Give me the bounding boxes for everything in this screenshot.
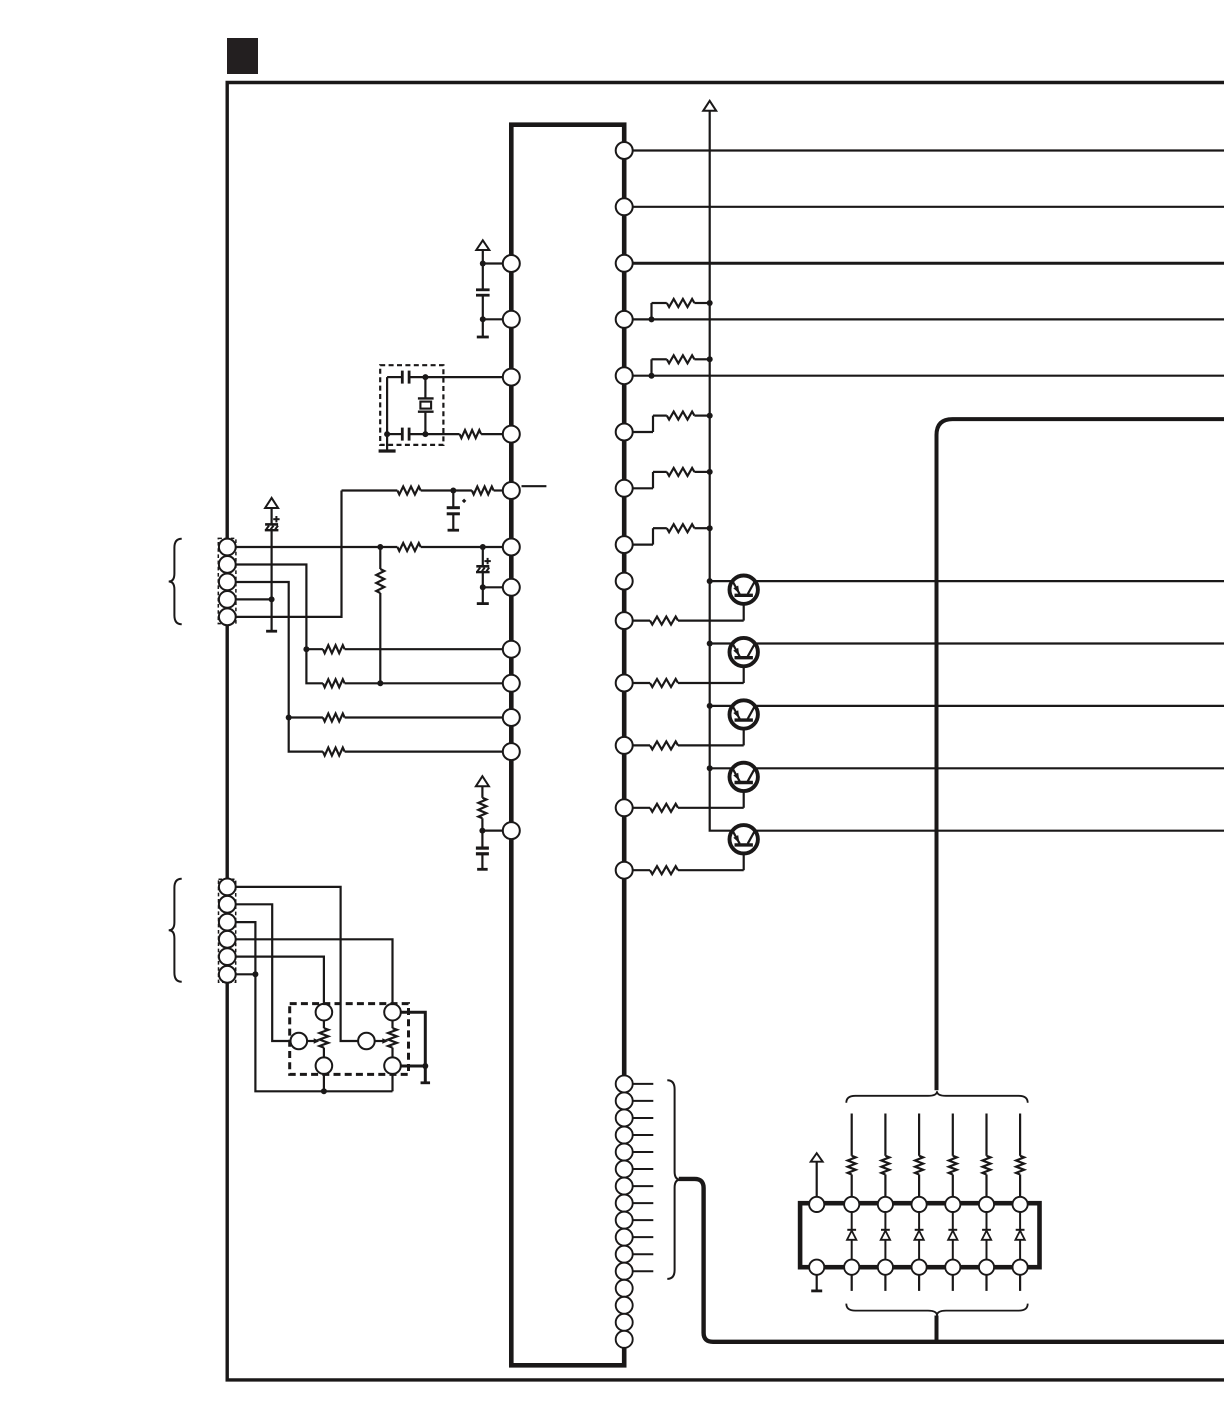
pin (array col 6 bottom)	[1013, 1260, 1028, 1275]
pin (U1 left pin L1 VDD)	[503, 255, 520, 272]
wire (P2 row and riser)	[236, 565, 323, 684]
resistor (P1 series to pin L6)	[380, 546, 397, 548]
wire (Q4 collector line to right edge)	[744, 767, 1224, 769]
pin (array col 3 top)	[912, 1197, 927, 1212]
wire (U1 pin R8 stub)	[633, 543, 653, 545]
power symbol V+ (battery rail)	[265, 498, 278, 508]
resistor (pull-up on pin R5)	[652, 358, 667, 360]
brace (CN1 group)	[169, 539, 182, 625]
IC U1 (main processor, body outline)	[511, 125, 624, 1366]
diode D5	[986, 1212, 988, 1230]
wire (array col 3 cathode lead)	[918, 1275, 920, 1291]
pin (U1 right pin 9, n.c.)	[616, 573, 633, 590]
resistor (base resistor Q4)	[633, 807, 650, 809]
capacitor C2 (osc load, top)	[409, 376, 425, 378]
pin (U1 right pin 2)	[616, 198, 633, 215]
pin (VR1 bottom terminal)	[316, 1057, 333, 1074]
wire (array col 4 cathode lead)	[952, 1275, 954, 1291]
wire (U1 pin R3 output line, bold)	[633, 262, 1224, 265]
pin (U1 drive pin for Q1)	[616, 612, 633, 629]
wire (Q5 collector line to right edge)	[744, 830, 1224, 832]
wire (reset row from connector riser)	[342, 489, 398, 491]
pin (CN1-3)	[219, 574, 236, 591]
capacitor C3 (osc load, bottom)	[409, 433, 425, 435]
pin (array col 2 bottom)	[878, 1260, 893, 1275]
wire (V+ to Q4 emitter)	[710, 767, 744, 769]
junction (filter node L7)	[480, 584, 486, 590]
wire (bus pin 9 stub)	[633, 1219, 654, 1221]
pin (CN2-2)	[219, 896, 236, 913]
wire (bus pin 7 stub)	[633, 1185, 654, 1187]
section marker (filled black square)	[227, 38, 258, 74]
wire (to pin L7)	[483, 586, 503, 588]
wiper arrow (VR1)	[307, 1040, 318, 1042]
terminal bar (rail end)	[266, 630, 277, 633]
brace (bus pin group)	[667, 1080, 680, 1279]
pin (U1 right pin 4)	[616, 311, 633, 328]
wire (Q1 base lead)	[743, 595, 745, 621]
wire (array col 1 cathode lead)	[851, 1275, 853, 1291]
wire (P4 row)	[236, 598, 272, 600]
junction (pull-up to V+ rail)	[707, 356, 713, 362]
wire (bus pin 10 stub)	[633, 1236, 654, 1238]
dashed box (crystal oscillator group)	[380, 365, 443, 445]
transistor Q4 (PNP)	[730, 763, 758, 791]
wire (bus pin 6 stub)	[633, 1168, 654, 1170]
pin (VR2 top terminal)	[384, 1004, 401, 1021]
pin (U1 left pin L4 OSC2)	[503, 426, 520, 443]
brace (array anode group)	[846, 1091, 1027, 1103]
capacitor C1 (supply decoupling)	[482, 264, 484, 290]
brace (CN2 group)	[169, 879, 182, 982]
wire (array column 4 feed)	[952, 1114, 954, 1156]
transistor Q3 (PNP)	[730, 700, 758, 728]
wire (Q5 base lead)	[743, 845, 745, 871]
wire (U1 pin R5 line to right edge)	[633, 375, 1224, 377]
junction (filter node L6)	[480, 544, 486, 550]
pin (array col 2 top)	[878, 1197, 893, 1212]
pin (U1 bus pin 14)	[616, 1297, 633, 1314]
wire (bus pin 8 stub)	[633, 1202, 654, 1204]
wire (osc left bus)	[386, 377, 388, 434]
wire (array col 6 cathode lead)	[1019, 1275, 1021, 1291]
wire (bus pin 3 stub)	[633, 1117, 654, 1119]
wire (bus pin 5 stub)	[633, 1151, 654, 1153]
pin (CN2-5)	[219, 948, 236, 965]
pin (VR2 bottom terminal)	[384, 1057, 401, 1074]
junction (V+ rail / Q2)	[707, 641, 713, 647]
wire (P3 row and riser)	[236, 582, 323, 752]
wire (Q3 base lead)	[743, 720, 745, 746]
wire (Q2 collector line to right edge)	[744, 642, 1224, 644]
resistor (L12 pull-up)	[481, 786, 483, 798]
resistor (to pin L8)	[306, 648, 323, 650]
wire (IC bottom bus, brace to bottom rail)	[679, 1179, 1224, 1342]
junction (P3 riser / L10 branch)	[286, 715, 292, 721]
pin (U1 drive pin for Q4)	[616, 799, 633, 816]
junction (pull-up to V+ rail)	[707, 525, 713, 531]
resistor (divider vertical)	[379, 547, 381, 569]
junction (pin R4 tap)	[649, 316, 655, 322]
pin (array col 5 bottom)	[979, 1260, 994, 1275]
pin (array col 1 bottom)	[844, 1260, 859, 1275]
wire (VR1 bottom lead)	[323, 1074, 325, 1091]
pin (U1 bus pin 1)	[616, 1075, 633, 1092]
pin (array col 6 top)	[1013, 1197, 1028, 1212]
resistor (base resistor Q1)	[633, 619, 650, 621]
wire (CN2-4 to VR2 top)	[236, 939, 393, 1004]
junction (osc ground node)	[384, 431, 390, 437]
pin (U1 left pin L9)	[503, 675, 520, 692]
pin (U1 right pin 1)	[616, 142, 633, 159]
wire (connector P1 row)	[236, 546, 380, 548]
wire (tap riser)	[650, 303, 652, 319]
resistor (base resistor Q3)	[633, 744, 650, 746]
wire (array column 3 feed)	[918, 1114, 920, 1156]
resistor (reset series 2)	[453, 489, 472, 491]
wire (V+ vertical rail)	[710, 111, 744, 831]
capacitor C5 (electrolytic, filter)	[482, 547, 484, 566]
resistor (pull-up on pin R7)	[653, 471, 667, 473]
pin (U1 bus pin 16)	[616, 1331, 633, 1348]
junction (row/divider top)	[377, 544, 383, 550]
pin (array col 4 bottom)	[945, 1260, 960, 1275]
pin (U1 bus pin 10)	[616, 1229, 633, 1246]
wire (Q4 base lead)	[743, 782, 745, 808]
pin (VR1 top terminal)	[316, 1004, 333, 1021]
pin (U1 bus pin 2)	[616, 1092, 633, 1109]
wire (CN2-3 common bus)	[236, 922, 393, 1091]
wire (P5 row riser to reset row)	[236, 491, 342, 617]
junction (pull-up to V+ rail)	[707, 300, 713, 306]
ground (C5 return)	[482, 587, 484, 603]
wire (Q1 collector line to right edge)	[744, 580, 1224, 582]
junction (V+ rail / Q4)	[707, 765, 713, 771]
wire (VR2 bottom lead)	[391, 1074, 393, 1091]
junction (X1 bottom node)	[422, 431, 428, 437]
pin (VR1 wiper terminal)	[291, 1033, 308, 1050]
junction (L12 node)	[479, 828, 485, 834]
resistor (array series R4)	[949, 1156, 957, 1175]
resistor (to pin L9)	[323, 679, 345, 687]
wire (U1 pin R2 output line)	[633, 206, 1224, 208]
resistor (base resistor Q2)	[633, 682, 650, 684]
junction (X1 top node)	[422, 374, 428, 380]
wire (V+ feed, rounded corner bus)	[937, 419, 1224, 1090]
wire (to pin L6)	[483, 546, 503, 548]
wire (bus pin 12 stub)	[633, 1270, 654, 1272]
resistor (VR2 element)	[391, 1021, 393, 1029]
wire (array col 5 cathode lead)	[985, 1275, 987, 1291]
transistor Q5 (PNP)	[730, 825, 758, 853]
pin (array col 4 top)	[945, 1197, 960, 1212]
junction (reset RC node)	[450, 488, 456, 494]
resistor (array series R3)	[915, 1156, 923, 1175]
wire (CN2-6 stub)	[236, 973, 256, 975]
power symbol V+ (top right rail)	[703, 101, 716, 111]
terminal bar (VR2 bracket end)	[421, 1081, 431, 1084]
wire (CN2-2 to VR1 wiper)	[236, 904, 291, 1041]
diode D1	[851, 1212, 853, 1230]
wire (U1 pin R7 stub)	[633, 487, 653, 489]
pin (U1 drive pin for Q3)	[616, 737, 633, 754]
wire (bus pin 1 stub)	[633, 1083, 654, 1085]
pin (U1 bus pin 12)	[616, 1263, 633, 1280]
wire (bus pin 2 stub)	[633, 1100, 654, 1102]
capacitor C6 (electrolytic, battery rail)	[271, 508, 273, 524]
pin (U1 right pin 6)	[616, 424, 633, 441]
junction (V+ node)	[480, 261, 486, 267]
wire (bus pin 4 stub)	[633, 1134, 654, 1136]
wire (tap riser)	[650, 359, 652, 375]
junction (V+ rail / Q1)	[707, 578, 713, 584]
junction (V+ rail / Q3)	[707, 703, 713, 709]
junction (pin L2 node)	[480, 316, 486, 322]
pin (CN2-6)	[219, 966, 236, 983]
wire (array common lead)	[816, 1162, 818, 1197]
resistor (array series R2)	[881, 1156, 889, 1175]
pin (VR2 wiper terminal)	[358, 1033, 375, 1050]
wire (array column 1 feed)	[851, 1114, 853, 1156]
dashed box (connector CN2)	[219, 879, 236, 982]
wiper arrow (VR2)	[375, 1040, 387, 1042]
wire (U1 pin R6 stub)	[633, 431, 653, 433]
ground (oscillator)	[386, 434, 388, 451]
pin (CN2-4)	[219, 931, 236, 948]
pin (U1 right pin 8)	[616, 536, 633, 553]
ground (C1 return)	[482, 319, 484, 337]
pin (array common top)	[809, 1197, 824, 1212]
junction (CN2-6 to bus)	[252, 971, 258, 977]
junction (pull-up to V+ rail)	[707, 413, 713, 419]
transistor Q1 (PNP)	[730, 576, 758, 604]
wire (Q3 collector line to right edge)	[744, 705, 1224, 707]
resistor (reset series)	[397, 487, 420, 495]
wire (Q2 base lead)	[743, 658, 745, 684]
dashed box (connector CN1)	[218, 538, 236, 623]
crystal X1	[424, 377, 426, 398]
pin (U1 drive pin for Q2)	[616, 675, 633, 692]
wire (CN2-5 to VR1 top)	[236, 957, 324, 1005]
resistor (pull-up on pin R4)	[652, 302, 667, 304]
wire (V+ to pin L1)	[482, 250, 484, 264]
resistor (osc series, to pin L4)	[425, 433, 459, 435]
array body (diode network outline)	[800, 1203, 1039, 1267]
pin (U1 left pin L6)	[503, 539, 520, 556]
pin (U1 bus pin 15)	[616, 1314, 633, 1331]
pin (U1 left pin L7)	[503, 579, 520, 596]
wire (array column 6 feed)	[1019, 1114, 1021, 1156]
capacitor C7 (L12 filter)	[481, 831, 483, 849]
junction (pin R5 tap)	[649, 373, 655, 379]
wire (node to pin L2)	[483, 318, 503, 320]
wire (U1 pin R1 output line)	[633, 149, 1224, 151]
dashed box (trimmer group)	[290, 1004, 409, 1075]
diode D2	[884, 1212, 886, 1230]
pin (array common bottom)	[809, 1260, 824, 1275]
brace (array cathode group)	[846, 1304, 1027, 1316]
pin (U1 bus pin 13)	[616, 1280, 633, 1297]
wire (array col 2 cathode lead)	[884, 1275, 886, 1291]
resistor (array series R1)	[848, 1156, 856, 1175]
page border frame	[227, 83, 1224, 1380]
junction (VR2 bracket)	[422, 1063, 428, 1069]
polarity mark (C4)	[462, 499, 467, 504]
junction (divider bottom)	[377, 680, 383, 686]
pin (CN2-1)	[219, 879, 236, 896]
pin (U1 drive pin for Q5)	[616, 862, 633, 879]
wire (V+ to Q1 emitter)	[710, 580, 744, 582]
tick (pin L5 internal mark)	[522, 485, 547, 487]
wire (V+ to Q3 emitter)	[710, 705, 744, 707]
pin (U1 left pin L12)	[503, 822, 520, 839]
diode D6	[1019, 1212, 1021, 1230]
pin (U1 bus pin 7)	[616, 1178, 633, 1195]
pin (U1 bus pin 8)	[616, 1195, 633, 1212]
power symbol V+ (array common)	[811, 1153, 823, 1162]
pin (U1 bus pin 9)	[616, 1212, 633, 1229]
pin (U1 bus pin 3)	[616, 1109, 633, 1126]
junction (P4 to rail)	[269, 596, 275, 602]
pin (U1 left pin L8)	[503, 641, 520, 658]
wire (array cathode stub to rail)	[935, 1316, 939, 1342]
ground (C4 return)	[448, 529, 460, 532]
pin (U1 right pin 3)	[616, 255, 633, 272]
pin (U1 bus pin 11)	[616, 1246, 633, 1263]
pin (U1 bus pin 4)	[616, 1126, 633, 1143]
wire (array column 2 feed)	[884, 1114, 886, 1156]
diode D3	[918, 1212, 920, 1230]
resistor (pull-up on pin R6)	[653, 415, 667, 417]
wire (CN2-1 to VR2 wiper)	[236, 887, 358, 1041]
resistor (pull-up on pin R8)	[653, 527, 667, 529]
wire (V+ to Q2 emitter)	[710, 642, 744, 644]
resistor (array series R6)	[1016, 1156, 1024, 1175]
pin (U1 left pin L5 RESET)	[503, 482, 520, 499]
wire (bus pin 11 stub)	[633, 1253, 654, 1255]
junction (pull-up to V+ rail)	[707, 469, 713, 475]
pin (CN1-1)	[219, 539, 236, 556]
wire (VR2 terminals bracket)	[401, 1012, 426, 1083]
ground (C7 return)	[477, 868, 488, 871]
diode D4	[952, 1212, 954, 1230]
pin (U1 bus pin 5)	[616, 1144, 633, 1161]
pin (CN1-5)	[219, 608, 236, 625]
pin (U1 right pin 5)	[616, 367, 633, 384]
capacitor C4 (reset)	[452, 491, 454, 508]
pin (CN2-3)	[219, 914, 236, 931]
power symbol V+ (U1 supply)	[476, 240, 489, 250]
pin (CN1-4)	[219, 591, 236, 608]
pin (array col 1 top)	[844, 1197, 859, 1212]
junction (P2 riser / L8 branch)	[303, 646, 309, 652]
pin (array col 3 bottom)	[912, 1260, 927, 1275]
wire (to pin L12)	[482, 829, 502, 831]
wire (X1 top node to pin L3)	[425, 376, 502, 378]
transistor Q2 (PNP)	[730, 638, 758, 666]
wire (U1 pin R4 line to right edge)	[633, 318, 1224, 320]
resistor (to pin L11)	[323, 748, 345, 756]
resistor (to pin L10)	[289, 716, 323, 718]
pin (CN1-2)	[219, 556, 236, 573]
pin (U1 left pin L3 OSC1)	[503, 369, 520, 386]
wire (array column 5 feed)	[985, 1114, 987, 1156]
power symbol V+ (L12 pull-up)	[476, 776, 489, 786]
pin (U1 left pin L11)	[503, 743, 520, 760]
pin (U1 right pin 7)	[616, 480, 633, 497]
resistor (base resistor Q5)	[633, 869, 650, 871]
ground (array common return)	[816, 1275, 818, 1291]
pin (U1 bus pin 6)	[616, 1161, 633, 1178]
junction (VR1 bottom to bus)	[321, 1088, 327, 1094]
pin (U1 left pin L10)	[503, 709, 520, 726]
resistor (array series R5)	[983, 1156, 991, 1175]
pin (U1 left pin L2 VSS)	[503, 311, 520, 328]
pin (array col 5 top)	[979, 1197, 994, 1212]
resistor (VR1 element)	[323, 1021, 325, 1029]
